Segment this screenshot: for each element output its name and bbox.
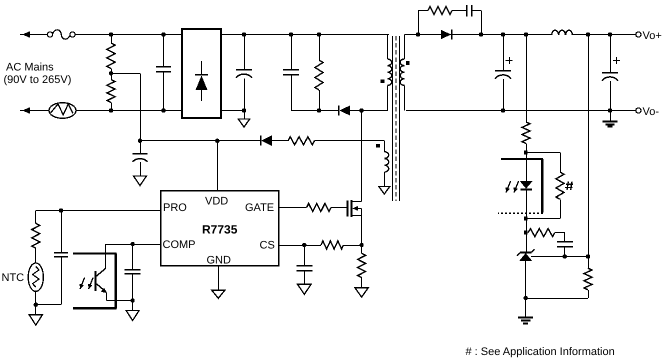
resistor R2 lower divider [107,73,115,110]
wire snubber mid [452,10,467,12]
ground bulk [238,111,250,128]
fuse F1 [47,30,75,39]
wire gate res to mosfet [331,207,347,209]
node snubber right [479,32,483,36]
opto light arrow 1 [80,278,85,290]
aux phase dot [376,144,380,148]
resistor R8 sense [358,245,366,288]
label VDD pin [205,196,228,208]
ground aux winding [379,187,390,195]
zener U3 TL431 [517,249,535,261]
label AC Mains [4,62,72,87]
svg-text:GND: GND [207,255,232,267]
wire divider feed down [588,35,590,257]
node output cap2 top [608,32,612,36]
node C11 bottom [563,254,567,258]
svg-text:(90V to 265V): (90V to 265V) [4,74,72,86]
node clamp res bottom [317,108,321,112]
label GATE pin [245,202,274,214]
capacitor C1 across mains [156,35,171,111]
wire R10 to LED node [526,144,528,153]
capacitor C6 COMP [125,244,141,301]
footnote [466,346,615,358]
resistor R3 clamp [315,35,323,111]
wire anode to earth [525,298,527,317]
ground NTC [29,315,43,326]
resistor R13 divider lower [584,257,592,299]
node LED cathode [524,217,528,221]
node clamp res top [317,32,321,36]
node X-cap bottom [161,108,165,112]
svg-text:Vo+: Vo+ [643,30,662,42]
node NTC bottom [34,303,38,307]
resistor R1 upper divider [107,35,115,74]
resistor R5 NTC series [32,223,40,248]
svg-text:PRO: PRO [163,202,187,214]
optocoupler U2 LED [520,153,533,219]
wire diode to resistor [272,140,289,142]
optocoupler U2 phototransistor [96,268,108,293]
wire primary bottom [387,85,389,110]
transistor Q1 MOSFET [348,200,362,217]
node bottom rail / R2 [109,108,113,112]
wire GND pin [218,266,220,291]
bridge rectifier diode symbol [195,61,208,101]
wire LED anode to R11 [526,153,561,173]
primary phase dot [381,79,385,83]
svg-text:Vo-: Vo- [643,106,660,118]
earth ground output [603,111,618,127]
node bulk cap bottom [242,108,246,112]
transformer T1 secondary winding [400,59,404,85]
node output cap2 bottom [608,108,612,112]
node CS cap junction [302,243,306,247]
ground COMP [126,311,139,321]
diode D2 VDD [261,135,272,145]
wire R12 to C11 [555,233,565,242]
wire clamp diode to drain node [350,110,388,112]
svg-text:R7735: R7735 [202,223,238,237]
wire CS res to source [344,245,362,247]
svg-text:VDD: VDD [205,196,228,208]
node drain junction [359,108,363,112]
wire Vo- rail [406,110,636,112]
wire resistor to aux winding [315,141,385,153]
wire secondary bottom [404,85,406,110]
node top rail / R1 [109,32,113,36]
wire R11 bottom [526,199,561,218]
resistor R9 snubber [428,7,452,15]
label # mark [565,181,573,190]
node VDD pin junction [215,139,219,143]
opto light arrow 2 [88,278,93,290]
wire NTC branch upper [35,211,37,224]
ground IC GND [212,290,225,298]
wire opto feed down [526,35,528,123]
wire drain node down [361,111,363,202]
node TL431 anode bottom [524,296,528,300]
wire ref line [531,256,588,258]
node output cap1 top [501,32,505,36]
optocoupler U2 box (LED side) [498,159,543,213]
wire divider tap to VDD branch [111,73,141,153]
diode D1 clamp [339,105,351,115]
ground CS cap [298,284,312,294]
wire primary top [387,35,389,60]
wire GATE pin [279,207,307,209]
wire secondary top [404,35,406,60]
node snubber left [416,32,420,36]
label NTC [2,272,25,284]
label GND pin [207,255,232,267]
wire divider bottom [526,298,588,300]
wire clamp bottom [291,110,338,112]
wire COMP line [106,244,161,246]
secondary phase dot [406,61,410,65]
node LED anode [524,151,528,155]
node C6 bottom [130,298,134,302]
varistor RV1 [49,103,76,119]
ground VDD cap [134,176,147,186]
resistor R4 VDD [288,137,315,145]
wire varistor to bridge [76,110,182,112]
LED light arrow 2 [514,181,519,193]
wire CS pin [279,245,322,247]
svg-text:COMP: COMP [163,239,196,251]
ground sense resistor [355,288,369,298]
resistor R7 CS [321,241,344,249]
node ref divider junction [586,254,590,258]
label COMP pin [163,239,196,251]
wire TL431 anode [525,261,527,298]
LED light arrow 1 [506,181,511,193]
node COMP cap junction [130,242,134,246]
capacitor C4 VDD [133,141,148,176]
wire snubber right [471,11,481,35]
node divider feed top [586,32,590,36]
capacitor C5 PRO [54,211,68,305]
label Vo- [643,106,660,118]
inductor L1 output [552,30,573,35]
label CS pin [260,240,275,252]
capacitor C8 snubber [467,5,472,17]
capacitor C7 CS [296,245,312,284]
svg-text:GATE: GATE [245,202,274,214]
node VDD cap junction [138,139,142,143]
label PRO pin [163,202,187,214]
bridge rectifier BR1 box [182,29,221,118]
AC mains input arrow lower [20,107,49,114]
capacitor C2 bulk [236,35,252,111]
svg-text:CS: CS [260,240,275,252]
svg-text:NTC: NTC [2,272,25,284]
wire snubber up left [418,11,428,35]
wire C5 bottom to NTC node [36,304,61,306]
wire VDD line [140,140,260,142]
resistor R12 comp [528,229,555,237]
svg-text:AC Mains: AC Mains [6,62,54,74]
earth ground feedback [518,318,533,324]
resistor R11 parallel # [556,172,564,199]
transformer T1 primary winding [388,59,392,85]
node opto feed top [524,32,528,36]
terminal Vo+ [636,32,641,37]
wire C6 to ground [132,301,134,311]
wire secondary rail [404,34,636,36]
capacitor C9 output [495,35,511,111]
svg-text:# : See Application Informatio: # : See Application Information [466,346,615,358]
wire fuse to divider [75,34,182,36]
label R7735 [202,223,238,237]
AC mains input arrow (line) [20,31,48,38]
wire B+ rail [221,34,389,36]
plus sign C9 [506,57,513,64]
node bulk cap top [242,32,246,36]
wire COMP down to opto collector [105,244,107,268]
label Vo+ [643,30,662,42]
op-amp U1 R7735 controller box [161,191,279,266]
resistor R6 gate [307,204,331,212]
capacitor C11 comp [557,242,573,257]
wire aux to ground [384,172,386,186]
node source junction [359,243,363,247]
wire NTC to ground [35,291,37,314]
capacitor C10 output [602,35,618,111]
wire opto emitter down [106,292,132,300]
transformer T1 aux winding [384,152,388,172]
transformer core left [392,36,394,201]
wire mosfet source [361,208,363,245]
wire R5 to NTC [35,248,37,263]
wire PRO line [36,210,161,212]
node X-cap top [161,32,165,36]
diode D3 output rectifier [441,30,452,40]
terminal Vo- [636,108,641,113]
node output cap1 bottom [501,108,505,112]
node PRO cap junction [59,208,63,212]
transformer core right [399,36,401,201]
plus sign C10 [613,57,620,64]
thermistor NTC [28,263,43,291]
wire LED cathode down [526,219,528,253]
wire bridge minus [221,110,244,112]
capacitor C3 clamp [283,35,299,111]
node comp RC junction [524,231,528,235]
optocoupler U2 box (transistor side) [73,254,116,309]
node divider tap [109,71,113,75]
wire VDD pin [217,141,219,191]
resistor R10 LED series [522,122,530,143]
node clamp cap top [289,32,293,36]
transformer core dashed [395,36,397,201]
